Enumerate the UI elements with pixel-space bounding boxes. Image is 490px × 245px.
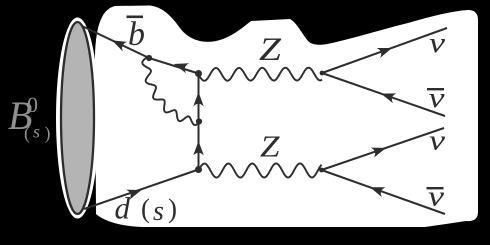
svg-text:s: s	[33, 122, 40, 142]
svg-text:ν: ν	[428, 181, 444, 213]
wire neutrino lower-out	[322, 128, 445, 170]
vertex V4	[196, 118, 202, 124]
arrow on b-bar line	[112, 40, 127, 51]
ellipse halo	[56, 18, 99, 219]
wire d quark line (ellipse to V3)	[84, 170, 199, 210]
wire neutrino upper-out	[322, 28, 447, 73]
boson Z lower wave	[199, 163, 322, 177]
wire V1 to V2	[149, 58, 199, 74]
svg-text:0: 0	[27, 92, 38, 117]
wire antineutrino upper-in	[322, 73, 445, 116]
boson W loop wave	[142, 58, 199, 125]
svg-text:): )	[45, 123, 51, 144]
svg-text:): )	[168, 194, 177, 224]
arrow internal lower	[193, 141, 204, 156]
svg-text:Z: Z	[259, 32, 282, 68]
wire b-bar quark line (ellipse to V1)	[82, 26, 149, 58]
arrow internal upper	[193, 92, 204, 107]
vertex V1	[146, 55, 152, 61]
wire antineutrino lower-in	[322, 170, 446, 214]
arrow neutrino upper-out	[377, 48, 392, 58]
wire internal quark line V3 to V2	[198, 74, 200, 170]
svg-text:d: d	[115, 191, 131, 226]
svg-text:ν: ν	[429, 82, 445, 114]
arrow antineutrino lower-in	[370, 187, 385, 197]
arrow V1-V2	[174, 63, 189, 73]
svg-text:(: (	[24, 123, 30, 144]
arrow antineutrino upper-in	[381, 93, 396, 103]
white backdrop blob	[95, 6, 478, 228]
svg-text:ν: ν	[429, 27, 445, 59]
arrow on d line	[126, 190, 141, 200]
boson Z upper wave	[199, 68, 323, 81]
svg-text:Z: Z	[260, 129, 280, 164]
vertex V2	[195, 70, 202, 77]
vertex right upper	[320, 71, 325, 76]
label B0(s)	[8, 92, 51, 144]
svg-text:ν: ν	[429, 125, 445, 157]
svg-text:b: b	[128, 16, 145, 53]
arrow neutrino lower-out	[371, 148, 386, 158]
vertex V3	[195, 166, 202, 173]
vertex right lower	[319, 168, 324, 173]
svg-text:s: s	[153, 196, 164, 227]
hadron blob (meson ellipse)	[61, 22, 94, 214]
svg-text:(: (	[141, 194, 150, 224]
